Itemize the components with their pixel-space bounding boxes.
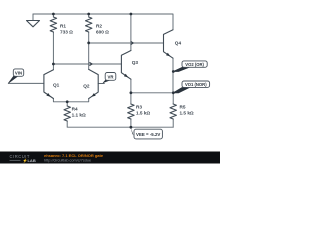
junction R4 top xyxy=(66,100,69,103)
svg-text:1.5 kΩ: 1.5 kΩ xyxy=(136,110,150,115)
svg-text:VIN: VIN xyxy=(15,70,22,75)
transistor Q3 xyxy=(121,51,130,80)
svg-text:R4: R4 xyxy=(72,107,78,112)
svg-text:VO2 (OR): VO2 (OR) xyxy=(185,62,204,67)
svg-text:R5: R5 xyxy=(180,104,186,109)
wire Q3 emitter xyxy=(130,79,132,93)
resistor R2 xyxy=(85,17,91,32)
wire Q2 base stub xyxy=(98,83,104,85)
junction VO1 node xyxy=(172,91,175,94)
junction R3 NOR node xyxy=(130,91,133,94)
crossing chevron on node A wire xyxy=(89,62,92,65)
wire R4 leads and VEE rail xyxy=(67,102,173,127)
svg-text:Q4: Q4 xyxy=(175,41,182,46)
wire R2 node to Q4 base xyxy=(89,42,164,44)
svg-text:VO1 (NOR): VO1 (NOR) xyxy=(185,82,207,87)
svg-text:600 Ω: 600 Ω xyxy=(96,29,109,34)
junction Q3 collector top xyxy=(130,13,133,16)
junction R1 top xyxy=(52,13,55,16)
flag VR xyxy=(103,73,116,84)
transistor Q4 xyxy=(164,30,174,59)
wire Q3 collector xyxy=(130,14,132,51)
crossing chevron on Q4 base wire xyxy=(131,41,134,44)
wire R3 leads xyxy=(130,93,132,127)
wire node A to Q3 base xyxy=(53,64,121,70)
svg-text:1.1 kΩ: 1.1 kΩ xyxy=(72,113,86,118)
emitter arrow Q2 xyxy=(91,93,95,97)
wire common emitters xyxy=(53,99,88,102)
wire NOR output xyxy=(131,92,173,94)
flag VIN xyxy=(8,69,23,84)
wire R2 leads xyxy=(88,14,90,43)
svg-text:R2: R2 xyxy=(96,23,102,28)
top ground rail wire xyxy=(33,14,173,30)
wire VIN to Q1 base xyxy=(8,82,44,84)
resistor R5 xyxy=(170,104,176,119)
svg-text:VEE = -5.2V: VEE = -5.2V xyxy=(136,132,160,137)
svg-text:R1: R1 xyxy=(60,23,66,28)
wire ground stem xyxy=(32,14,34,21)
svg-text:1.5 kΩ: 1.5 kΩ xyxy=(180,110,194,115)
transistor Q1 xyxy=(44,70,54,99)
wire Q2 collector xyxy=(88,43,90,69)
svg-text:http://circuitlab.com/c/7sdue: http://circuitlab.com/c/7sdue xyxy=(44,159,91,163)
wire R5 leads xyxy=(172,93,174,127)
svg-text:Q3: Q3 xyxy=(132,60,139,65)
svg-text:Q1: Q1 xyxy=(53,82,60,87)
flag VEE xyxy=(130,127,162,139)
svg-text:R3: R3 xyxy=(136,104,142,109)
junction R3 bottom VEE xyxy=(130,126,133,129)
flag VO1 (NOR) xyxy=(173,81,209,93)
svg-text:733 Ω: 733 Ω xyxy=(60,29,73,34)
svg-text:Q2: Q2 xyxy=(83,84,90,89)
emitter arrow Q1 xyxy=(46,93,50,97)
svg-text:ehsanro: 7.1 ECL OR/NOR gate: ehsanro: 7.1 ECL OR/NOR gate xyxy=(44,153,104,158)
junction R2 bottom xyxy=(87,42,90,45)
wire Q4 emitter to outputs xyxy=(172,58,174,93)
node A junction xyxy=(52,63,55,66)
resistor R3 xyxy=(128,104,134,119)
junction R2 top xyxy=(87,13,90,16)
svg-text:VR: VR xyxy=(108,74,115,79)
resistor R1 xyxy=(50,17,56,32)
emitter arrow Q4 xyxy=(166,53,170,57)
ground xyxy=(27,21,40,27)
svg-text:⚡LAB: ⚡LAB xyxy=(23,158,36,163)
emitter arrow Q3 xyxy=(124,74,128,78)
flag VO2 (OR) xyxy=(173,61,207,72)
transistor Q2 xyxy=(89,69,99,98)
watermark band xyxy=(0,152,220,164)
resistor R4 xyxy=(64,106,70,121)
wire R1 leads xyxy=(52,14,54,64)
junction VO2 node xyxy=(172,70,175,73)
